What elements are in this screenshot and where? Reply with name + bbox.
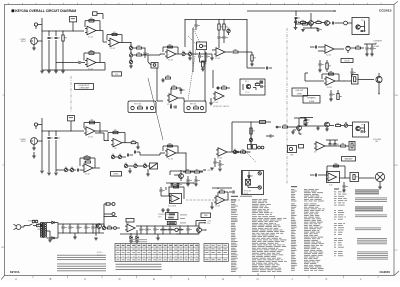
right para block1 xyxy=(355,190,379,195)
gnd IC6a xyxy=(209,98,213,105)
svg-text:CG2015: CG2015 xyxy=(380,270,391,274)
wire IC7a out xyxy=(178,98,184,101)
svg-text:RY: RY xyxy=(262,122,264,124)
svg-text:IC2 2/2: IC2 2/2 xyxy=(168,60,173,62)
resistor R42 xyxy=(195,169,204,173)
gnd Q8 area xyxy=(316,126,320,130)
label small xyxy=(260,121,266,125)
transistor Q7 xyxy=(376,73,382,95)
IC15 input xyxy=(160,187,170,196)
pa2 feedback xyxy=(169,184,184,199)
block footswitch C xyxy=(242,171,264,196)
caps below IC10a xyxy=(214,158,224,168)
junction cap C11 xyxy=(195,20,200,31)
svg-text:K: K xyxy=(326,277,328,281)
box R56 xyxy=(352,75,375,85)
parts list header A xyxy=(231,196,252,197)
resistor R1 vert xyxy=(62,30,67,70)
wire IC4a out xyxy=(225,51,232,53)
svg-text:+: + xyxy=(78,60,79,62)
notes col mid4 xyxy=(334,238,344,248)
output block box PU1 xyxy=(352,18,369,35)
pot VR2 treble xyxy=(129,52,132,60)
IC15 grounds xyxy=(161,208,170,212)
box R33 xyxy=(68,116,75,132)
left ruler ticks xyxy=(1,95,4,249)
op-amp IC12a xyxy=(324,77,335,89)
svg-text:SPEAKER: SPEAKER xyxy=(308,97,317,100)
table notes text xyxy=(116,264,162,270)
filter cap C60 xyxy=(62,224,67,233)
parts row IC13 xyxy=(325,143,349,147)
parts under IC12a xyxy=(329,90,342,101)
svg-text:LINE OUT: LINE OUT xyxy=(296,90,304,92)
svg-text:V+: V+ xyxy=(196,183,198,185)
v+ arrow xyxy=(203,169,211,172)
capacitor C5 xyxy=(75,60,85,65)
feedback IC3a xyxy=(163,44,178,54)
wire IC3a out xyxy=(176,53,181,55)
input jack J1 CH1 xyxy=(20,38,38,45)
cap right net xyxy=(266,135,274,138)
right para block2 xyxy=(355,198,387,202)
parts above IC7a xyxy=(171,85,185,94)
parts list colB upper xyxy=(291,189,324,201)
regulator triangle xyxy=(125,223,135,232)
phones jack label xyxy=(373,139,381,143)
cap C13 xyxy=(205,52,210,62)
svg-text:2-PHONES: 2-PHONES xyxy=(373,139,381,141)
jack block lower xyxy=(288,145,304,157)
rect diode D1 xyxy=(50,221,58,223)
wire IC9a out xyxy=(176,152,187,171)
reverb note text xyxy=(213,105,229,108)
notes paragraph 2 xyxy=(57,264,106,272)
svg-text:IC1 2/2: IC1 2/2 xyxy=(88,68,93,70)
svg-text:IC9: IC9 xyxy=(314,152,317,154)
pots before IC8b xyxy=(64,166,82,172)
boxed label SPEAKER OUT xyxy=(303,96,320,104)
op-amp IC1b xyxy=(85,58,96,70)
center tap gnd xyxy=(48,231,52,242)
op-amp IC13a xyxy=(314,142,325,154)
svg-text:RY-1: RY-1 xyxy=(245,81,249,83)
power amp IC14 xyxy=(326,172,340,187)
op-amp IC6a reverb xyxy=(213,92,224,104)
bottom mark 14 xyxy=(257,274,260,276)
feedback loop IC8a xyxy=(84,120,100,133)
connector circles xyxy=(104,203,115,225)
ps cap C69 xyxy=(179,225,184,234)
reg transistor Q10 xyxy=(97,224,102,233)
fuse F1 xyxy=(37,224,44,231)
wire CH1 jack to bus xyxy=(37,18,42,70)
pa feedback loop xyxy=(327,163,345,178)
capacitor C31 xyxy=(48,131,53,172)
svg-text:LEVEL: LEVEL xyxy=(297,94,302,96)
reg label box xyxy=(126,219,134,223)
sheet code CG2015 top right xyxy=(379,9,392,13)
ps rail2 bot ext xyxy=(176,233,199,235)
gnd ch2 pots xyxy=(128,168,150,176)
fx jack box xyxy=(197,42,207,50)
gnd Q6 xyxy=(291,130,296,134)
caps ch2 row1 xyxy=(127,151,140,157)
IC15 top parts xyxy=(166,183,182,190)
wire IC5a out xyxy=(334,48,344,50)
svg-text:REV SW: REV SW xyxy=(190,104,197,106)
transistor Q5 xyxy=(174,170,183,181)
right para block5 xyxy=(355,228,381,231)
ground below J1 xyxy=(32,44,36,50)
gnd IC11a xyxy=(210,202,214,209)
notes paragraph 1 xyxy=(57,255,106,260)
svg-text:INPUT: INPUT xyxy=(21,141,26,143)
speaker label 1 xyxy=(373,40,383,45)
wire ch2 row1 xyxy=(140,153,165,155)
block footswitch A xyxy=(128,101,156,113)
svg-text:IC7 1/2: IC7 1/2 xyxy=(168,159,173,161)
power sw label xyxy=(28,221,37,223)
svg-text:KEY15A OVERALL CIRCUIT DIAGRAM: KEY15A OVERALL CIRCUIT DIAGRAM xyxy=(15,9,76,13)
cap C27 xyxy=(318,60,324,72)
res R58 xyxy=(336,123,345,127)
bus y183 xyxy=(166,182,198,185)
diag wire footA xyxy=(148,78,163,140)
op-amp IC5a xyxy=(323,45,334,57)
bus above Q6 xyxy=(294,118,310,126)
cap C9 + box xyxy=(148,55,158,68)
op-amp IC8b xyxy=(82,164,93,176)
dc rail top xyxy=(58,223,104,224)
parts list colB main xyxy=(291,204,325,271)
volume pot VR1 xyxy=(129,42,132,53)
op-amp IC3a xyxy=(165,50,176,62)
svg-text:IC8 1/2: IC8 1/2 xyxy=(217,158,222,160)
zener D7 xyxy=(135,230,139,243)
caps below IC7a xyxy=(170,104,176,109)
wires under Q1 xyxy=(301,27,322,32)
cap C41 xyxy=(186,176,192,186)
wire IC8a to IC8c xyxy=(95,133,109,141)
res above IC11a xyxy=(218,189,228,200)
ps out arrow2 xyxy=(199,222,211,226)
ps out arrow4 xyxy=(201,229,206,230)
cap C21 xyxy=(294,18,300,30)
op-amp IC9a ch2 tone xyxy=(165,149,176,161)
ps cap C65 xyxy=(146,226,151,234)
fet Q2 xyxy=(346,46,355,53)
parts list header B xyxy=(291,186,297,187)
vertical wire x247 xyxy=(246,20,247,69)
ps small text xyxy=(158,214,170,218)
boxed label CH2 xyxy=(111,172,122,177)
jack tip J5 xyxy=(344,21,352,25)
op-amp IC7a xyxy=(167,94,178,106)
parts above IC6a xyxy=(217,85,231,90)
pa small parts xyxy=(342,182,348,192)
ps cap C64 xyxy=(140,226,145,234)
op-amp IC10a xyxy=(216,148,227,160)
top ruler ticks xyxy=(9,3,382,5)
notes col mid2 xyxy=(334,210,346,220)
res R50 xyxy=(283,124,297,128)
svg-text:B: B xyxy=(50,277,52,281)
right para block6 xyxy=(357,238,387,244)
vertical wire x213 xyxy=(212,70,214,88)
svg-text:VOL: VOL xyxy=(115,74,118,76)
resistor R21 xyxy=(313,20,324,24)
arrow into Q6 xyxy=(276,126,281,128)
op-amp IC1a xyxy=(85,26,96,38)
cap bank C25 xyxy=(365,44,371,56)
svg-text:KEY15A: KEY15A xyxy=(10,270,20,274)
rect diode D2 xyxy=(50,223,58,240)
ps gnd2 xyxy=(156,234,160,240)
wire IC12a in xyxy=(305,73,324,81)
svg-text:DELAY: DELAY xyxy=(344,60,350,63)
svg-text:E: E xyxy=(153,277,155,281)
pots ch2 row2 xyxy=(124,163,149,168)
vertical wire x193 xyxy=(192,28,194,72)
pot VR3 bass xyxy=(129,59,133,68)
resistor R8 xyxy=(133,45,145,49)
feedback IC9a xyxy=(163,143,178,153)
cap C20 xyxy=(295,17,300,23)
op-amp IC4a xyxy=(214,48,225,60)
resistor R16 vert xyxy=(247,52,256,66)
ps cap C70 xyxy=(187,225,192,234)
ps rail2 bot xyxy=(120,233,199,234)
lamp PL1 xyxy=(102,224,105,230)
cap C42 xyxy=(194,176,200,186)
phones label xyxy=(371,46,379,48)
wire phones bus xyxy=(298,117,325,127)
svg-text:IC4 1/2: IC4 1/2 xyxy=(326,55,331,57)
svg-text:D: D xyxy=(119,277,121,281)
right para block4 xyxy=(355,215,387,218)
svg-text:G: G xyxy=(222,277,224,281)
aux contact J1b xyxy=(34,23,42,29)
resistor ladder2 xyxy=(223,19,228,43)
right para block7 xyxy=(357,252,388,260)
left of table text xyxy=(97,251,103,257)
svg-text:CG2015: CG2015 xyxy=(379,9,392,13)
wire y188 bus xyxy=(212,187,232,189)
speaker SP1 xyxy=(375,172,384,189)
svg-text:COMBO AMP: COMBO AMP xyxy=(79,87,90,90)
divider dash-dot x287 xyxy=(286,28,288,184)
wire mixer bus xyxy=(170,170,203,175)
resistor R25 xyxy=(356,45,365,49)
svg-text:IC10: IC10 xyxy=(329,185,332,187)
box IC13 out xyxy=(349,142,356,151)
svg-text:FOOT SW: FOOT SW xyxy=(134,104,142,106)
wire IC2a out xyxy=(119,42,132,43)
transformer T1 xyxy=(38,222,50,238)
top small box xyxy=(93,12,104,19)
reg diode D5 xyxy=(94,224,98,240)
right sub table text xyxy=(205,245,227,260)
dashed diag fx xyxy=(188,36,196,44)
pot net xyxy=(249,137,252,145)
pot VR14 xyxy=(344,122,352,127)
boxed label VOLUME ch1 xyxy=(112,72,122,76)
right sub table xyxy=(204,244,228,262)
res R26 xyxy=(326,60,331,72)
wire IC10a out xyxy=(227,151,233,153)
parts row y152 xyxy=(232,151,248,154)
dashed link rev xyxy=(247,153,256,162)
grounds CH2 xyxy=(40,171,58,175)
svg-text:IC8 2/2: IC8 2/2 xyxy=(215,206,220,208)
res R55 xyxy=(335,80,352,81)
wire to speaker xyxy=(359,177,375,179)
power amp IC15 box xyxy=(169,194,182,204)
ps cap C66 xyxy=(154,226,159,234)
block footswitch B xyxy=(184,101,206,113)
res R45 xyxy=(241,149,251,153)
ps parts row xyxy=(106,225,120,229)
filter cap C63b xyxy=(92,224,97,233)
svg-text:IC 1/2: IC 1/2 xyxy=(246,92,250,94)
caps IC11a xyxy=(229,191,234,194)
switch S1 xyxy=(26,220,38,225)
capacitor C1 xyxy=(48,31,53,70)
notes col mid5 xyxy=(334,251,343,256)
op-amp IC11a xyxy=(214,196,225,208)
svg-text:IC6 2/2: IC6 2/2 xyxy=(85,174,90,176)
output block box PU2 xyxy=(353,122,369,137)
dash line pa xyxy=(186,199,240,201)
pot VR4 xyxy=(182,51,189,56)
ps out transistor Q11 xyxy=(197,226,202,234)
wire into pots xyxy=(56,169,64,171)
sheet code CG2015 bottom right xyxy=(380,270,391,274)
svg-text:+: + xyxy=(71,226,72,228)
gnd IC10a xyxy=(210,168,222,171)
capacitor C8 xyxy=(144,48,149,58)
ground below J2 xyxy=(32,144,36,158)
parts list colA upper xyxy=(231,199,272,215)
circles net xyxy=(257,146,264,149)
dashed link FX xyxy=(193,27,200,43)
wire rev net top xyxy=(232,121,271,152)
feedback IC12a xyxy=(322,71,339,81)
svg-text:H: H xyxy=(257,277,259,281)
boxed label LINE OUT xyxy=(292,88,308,96)
sheet code KEY15A bottom left xyxy=(10,270,20,274)
svg-text:C: C xyxy=(84,277,86,281)
wire IC1b input xyxy=(56,63,105,71)
svg-text:A: A xyxy=(15,277,17,281)
wire IC4a in xyxy=(212,43,219,50)
svg-text:S-100: S-100 xyxy=(244,193,248,195)
table cell text rows xyxy=(116,249,198,261)
boxed label POWER SUPPLY xyxy=(201,213,211,218)
transistor Q2 xyxy=(325,21,331,26)
svg-text:LEVEL: LEVEL xyxy=(114,174,119,176)
op-amp IC2a xyxy=(108,38,119,50)
svg-text:2-PHONES: 2-PHONES xyxy=(371,46,379,48)
resistor R9 xyxy=(133,47,148,56)
gnd rail xyxy=(73,233,77,239)
ps rail2 top xyxy=(136,225,199,226)
op-amp IC8c xyxy=(111,139,122,151)
cap C12 xyxy=(198,52,203,62)
feedback IC8c xyxy=(108,130,125,143)
cap C22 xyxy=(332,22,343,25)
pa out wire xyxy=(340,177,351,178)
wire CH1 top bus xyxy=(42,30,84,31)
right para block3 xyxy=(355,207,383,212)
aux contact J2b xyxy=(34,123,42,129)
transistor Q8 xyxy=(325,122,334,131)
bottom ruler xyxy=(15,276,378,282)
svg-text:FOOT SW: FOOT SW xyxy=(244,191,252,193)
top bus wire y19 xyxy=(185,19,248,20)
diag wire footB xyxy=(188,43,197,100)
wire IC1a out xyxy=(96,31,107,43)
ps out arrow1 xyxy=(196,220,212,226)
delay label box xyxy=(341,59,353,63)
ps cap C67 xyxy=(162,226,167,234)
resistor R12 vert xyxy=(201,61,207,71)
filter cap C63a xyxy=(85,224,90,233)
svg-text:INPUT: INPUT xyxy=(21,41,26,43)
feedback loop IC1a xyxy=(85,18,100,31)
svg-text:+: + xyxy=(77,166,78,168)
box ch2 tone xyxy=(150,163,158,169)
ps wire up branch xyxy=(103,216,117,217)
ps cap C68 xyxy=(169,226,174,234)
wire CH2 jack bus xyxy=(37,118,42,170)
svg-text:IC2 1/2: IC2 1/2 xyxy=(110,48,115,50)
divider dash-dot x71 xyxy=(70,76,72,112)
transistor Q6 xyxy=(297,118,302,135)
gnd above xyxy=(161,75,170,82)
title KEY15A OVERALL CIRCUIT DIAGRAM xyxy=(12,9,77,13)
dc rail bot xyxy=(58,232,104,233)
boxes net xyxy=(248,145,257,150)
wire to tremolo xyxy=(247,67,272,70)
cap bank C26 xyxy=(364,44,376,56)
IC15 label xyxy=(168,205,176,208)
wire IC5a in xyxy=(310,46,323,52)
boxed label POWER AMP xyxy=(342,157,356,162)
ac plug xyxy=(14,224,27,229)
capacitor C32 xyxy=(55,131,60,172)
wire y101 link xyxy=(157,100,206,102)
wire CH2 top bus xyxy=(42,130,84,131)
transistor Q1 xyxy=(309,13,314,28)
svg-text:REV: REV xyxy=(290,155,293,157)
resistor ladder above IC4 xyxy=(218,19,223,43)
resistor above IC8b xyxy=(84,159,91,163)
svg-text:IC5 1/2: IC5 1/2 xyxy=(213,102,218,104)
wire tone to IC3 xyxy=(148,54,165,55)
vertical wire x205 xyxy=(204,50,206,101)
feedback loop IC1b xyxy=(84,50,100,62)
pilot lamp LED xyxy=(160,228,183,231)
small parts right xyxy=(351,68,356,77)
notes col mid3 xyxy=(334,223,345,235)
boxed label LEVEL INPUT xyxy=(75,84,94,90)
wire fx bottom xyxy=(200,61,207,62)
resistor R41 xyxy=(183,169,194,173)
pa input xyxy=(310,174,326,177)
svg-text:IC3 1/2: IC3 1/2 xyxy=(215,58,220,60)
